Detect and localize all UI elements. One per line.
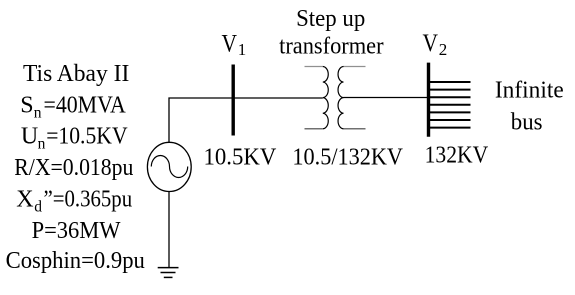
wire: bus V1 to transformer primary [233, 97, 323, 99]
svg-text:n: n [38, 136, 46, 153]
svg-text:n: n [34, 104, 42, 121]
transformer T1 secondary winding [338, 67, 365, 129]
svg-text:132KV: 132KV [425, 142, 489, 168]
svg-text:d: d [34, 198, 42, 215]
generator value label Sn=40MVA [20, 92, 126, 121]
svg-text:X: X [16, 186, 33, 212]
svg-text:bus: bus [511, 109, 543, 135]
transformer T1 primary winding [305, 67, 329, 129]
svg-text:P=36MW: P=36MW [32, 218, 121, 244]
bus V1 [231, 65, 234, 136]
svg-text:=10.5KV: =10.5KV [46, 124, 128, 150]
infinite bus hatch lines [429, 82, 471, 128]
bus V2 [427, 63, 430, 137]
generator G1 (synchronous machine) [147, 142, 191, 191]
svg-text:Step up: Step up [296, 6, 365, 32]
wire: generator top riser to bus V1 [169, 98, 233, 142]
svg-text:10.5KV: 10.5KV [204, 145, 277, 171]
svg-text:V: V [423, 30, 439, 57]
svg-text:”=0.365pu: ”=0.365pu [44, 186, 133, 212]
generator value label Un=10.5KV [21, 124, 128, 153]
svg-text:=40MVA: =40MVA [44, 92, 127, 118]
svg-text:V: V [222, 30, 238, 57]
ground [158, 268, 179, 278]
svg-text:Cosphin=0.9pu: Cosphin=0.9pu [6, 248, 145, 274]
svg-text:1: 1 [238, 40, 247, 59]
svg-text:2: 2 [439, 40, 448, 59]
svg-text:R/X=0.018pu: R/X=0.018pu [14, 155, 133, 181]
generator value label Xd"=0.365pu [16, 186, 132, 215]
svg-text:transformer: transformer [279, 34, 384, 60]
svg-text:10.5/132KV: 10.5/132KV [292, 145, 403, 171]
wire: generator bottom to ground [168, 192, 170, 268]
svg-text:Tis Abay II: Tis Abay II [23, 61, 129, 87]
svg-text:S: S [20, 92, 33, 118]
svg-text:Infinite: Infinite [495, 78, 564, 104]
svg-text:U: U [21, 124, 38, 150]
wire: transformer secondary to bus V2 [344, 97, 430, 99]
